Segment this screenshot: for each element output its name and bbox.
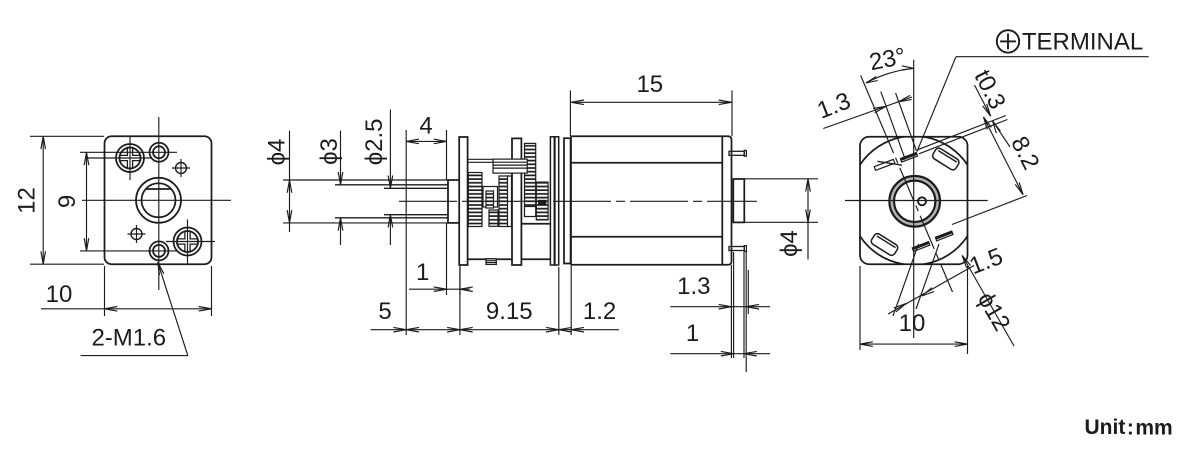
svg-text:15: 15 <box>636 71 663 98</box>
svg-text:10: 10 <box>899 310 926 337</box>
svg-text:10: 10 <box>46 281 73 308</box>
svg-text:9.15: 9.15 <box>486 298 533 325</box>
svg-text:1: 1 <box>686 320 699 347</box>
svg-text:ϕ2.5: ϕ2.5 <box>361 118 388 165</box>
svg-text:9: 9 <box>54 195 81 208</box>
svg-text:1: 1 <box>416 259 429 286</box>
svg-text:ϕ4: ϕ4 <box>776 230 803 257</box>
svg-text:Unit:mm: Unit:mm <box>1085 416 1173 439</box>
svg-text:5: 5 <box>378 298 391 325</box>
svg-text:TERMINAL: TERMINAL <box>1022 29 1143 56</box>
svg-text:12: 12 <box>14 187 41 214</box>
svg-text:1.3: 1.3 <box>677 273 710 300</box>
svg-text:4: 4 <box>419 113 432 140</box>
svg-text:ϕ4: ϕ4 <box>264 139 291 166</box>
svg-text:1.2: 1.2 <box>583 298 616 325</box>
svg-text:2-M1.6: 2-M1.6 <box>91 325 166 352</box>
svg-text:ϕ3: ϕ3 <box>316 138 343 165</box>
